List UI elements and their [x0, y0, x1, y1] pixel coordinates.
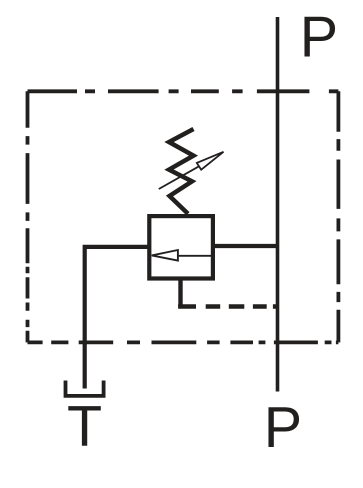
tank symbol: [66, 381, 104, 396]
enclosure dash-dot boundary top: [28, 89, 339, 93]
svg-text:P: P: [300, 5, 338, 69]
wire valve bottom pilot stub: [178, 279, 182, 307]
enclosure dash-dot boundary left: [26, 91, 30, 342]
enclosure dash-dot boundary right: [336, 91, 340, 342]
adjustment arrow head: [197, 152, 224, 170]
wire left port to tank corner: [85, 247, 149, 389]
wire P line vertical: [276, 17, 280, 392]
flow arrow line inside valve: [178, 255, 213, 257]
relief valve body: [149, 216, 213, 278]
svg-text:T: T: [67, 395, 102, 459]
flow arrow head inside valve: [152, 250, 178, 261]
pilot line dashed to P line: [178, 304, 277, 308]
wire right port to P line: [213, 244, 278, 248]
enclosure dash-dot boundary bottom: [28, 340, 339, 344]
spring: [169, 129, 194, 214]
adjustment arrow line: [159, 166, 199, 189]
svg-text:P: P: [264, 396, 302, 460]
